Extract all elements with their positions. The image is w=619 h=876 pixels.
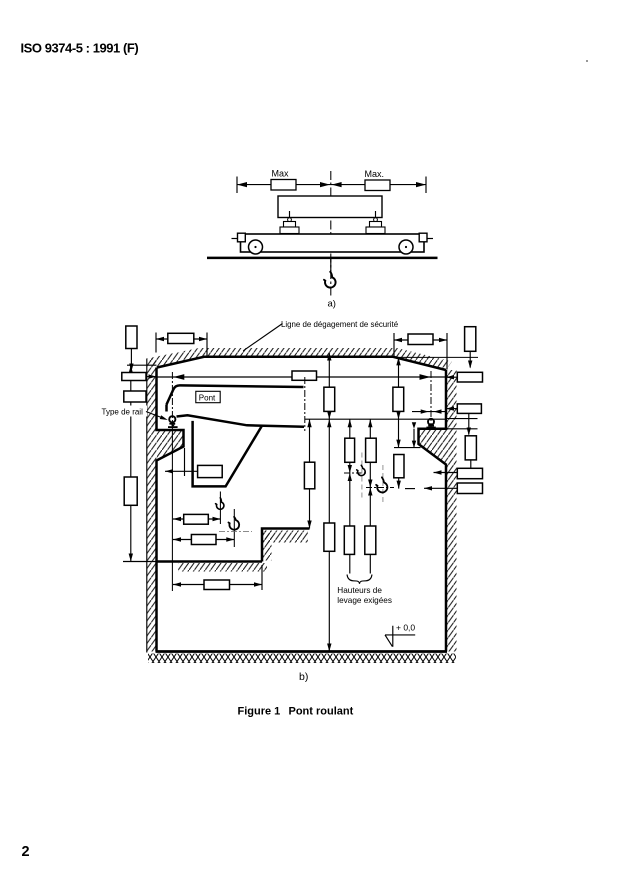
row1 dimension	[173, 518, 221, 520]
rail leader arrow	[146, 412, 160, 418]
runway level extension right of wall	[446, 418, 478, 420]
trolley support right	[370, 222, 382, 228]
rail height dim	[413, 429, 415, 448]
svg-text:Hauteurs de: Hauteurs de	[337, 586, 382, 595]
right corbel hatch	[419, 429, 447, 465]
left crane wheel	[169, 416, 175, 422]
small rail dimension arrows	[412, 411, 446, 413]
platform outline	[262, 529, 310, 562]
right wall inner face with corbel	[419, 370, 447, 652]
reference tick line	[127, 364, 157, 366]
ceiling underside line	[157, 357, 446, 370]
svg-text:b): b)	[299, 671, 308, 683]
dimension line Max left/right	[237, 184, 426, 186]
intermediate floor hatch	[178, 563, 267, 572]
hook B level line	[366, 487, 394, 489]
dimension box Max left	[271, 180, 296, 191]
hook B	[376, 477, 387, 492]
row2 dimension	[173, 539, 234, 541]
stray dot top right	[586, 60, 588, 62]
crab/trolley body	[278, 196, 382, 218]
right column vertical link	[468, 413, 470, 434]
right wall hatch band	[446, 370, 457, 652]
vertical dim chain x398	[398, 357, 400, 387]
row3 right extension	[261, 565, 263, 590]
hall centerline	[304, 377, 306, 431]
row3 dimension	[173, 584, 262, 586]
right box R4	[457, 468, 482, 478]
runway rail line	[207, 257, 438, 260]
hook B centerline	[382, 465, 384, 505]
wheel right	[399, 240, 413, 254]
runway level line	[305, 418, 446, 420]
Pont label box	[196, 391, 220, 402]
arrow left outward	[237, 182, 247, 187]
hook a	[324, 272, 336, 288]
buffer stop left	[238, 233, 246, 242]
box A arrow to wall	[146, 376, 157, 378]
right box R2	[457, 404, 481, 414]
right rail foot	[426, 427, 435, 429]
dimension box in hoist	[198, 465, 223, 477]
hook A level line	[344, 472, 367, 474]
right box R1	[457, 372, 482, 382]
trolley support left	[284, 222, 296, 228]
intermediate floor dim extension	[123, 561, 157, 563]
right column box RC1	[465, 327, 476, 352]
hook A centerline	[361, 453, 363, 500]
arrow right outward	[416, 182, 426, 187]
platform hatch top	[263, 531, 308, 543]
crane girder top edge	[167, 385, 304, 404]
svg-text:+ 0,0: + 0,0	[396, 622, 415, 632]
main span dimension line	[157, 376, 447, 378]
left rail foot	[168, 426, 178, 428]
svg-text:Pont roulant: Pont roulant	[289, 706, 354, 718]
trolley hanger pin left	[289, 211, 291, 222]
hook shank	[330, 258, 332, 272]
top-right dimension line	[394, 339, 447, 341]
top-right dimension box	[408, 334, 433, 345]
main span dimension box	[292, 371, 317, 380]
left outside box B	[124, 391, 146, 402]
extension line left	[236, 177, 238, 194]
svg-text:Ligne de dégagement de sécurit: Ligne de dégagement de sécurité	[281, 320, 399, 329]
hook2 level line	[219, 531, 252, 533]
centerline crane axis	[330, 171, 332, 296]
vertical dim girder-to-platform	[309, 419, 311, 528]
vertical dim chain x370	[369, 419, 371, 573]
vertical dim chain x329	[328, 353, 330, 388]
left outside box L1	[126, 326, 137, 349]
left wall hatch band	[147, 359, 157, 652]
arrows at centerline	[320, 182, 330, 187]
box on dim x309	[304, 462, 314, 489]
right box R5	[457, 483, 482, 494]
extension line right	[425, 177, 427, 194]
top-right dimension extension lines	[394, 333, 447, 370]
left rail centerline	[171, 372, 173, 431]
hoist trapezoid under girder	[193, 421, 262, 487]
left corbel hatch	[157, 430, 184, 461]
corbel level extension right of wall	[446, 428, 478, 430]
girder left edge	[165, 405, 168, 412]
svg-text:Figure 1: Figure 1	[238, 706, 281, 718]
trolley hanger pin right	[375, 211, 377, 222]
left wall inner face with corbel	[157, 368, 184, 652]
svg-text:Pont: Pont	[199, 393, 216, 402]
svg-text:Max.: Max.	[365, 169, 385, 179]
label Type de rail	[112, 406, 147, 417]
datum level symbol	[385, 626, 415, 647]
dimension box Max right	[365, 180, 390, 191]
top-left dimension line	[156, 338, 207, 340]
girder bottom edge	[177, 415, 305, 427]
svg-text:Max: Max	[272, 169, 290, 179]
left rail head	[169, 423, 175, 425]
corbel face extension line	[184, 448, 186, 476]
bridge girder side view	[241, 234, 425, 252]
right box R3	[465, 436, 476, 460]
ceiling hatch band	[147, 348, 452, 370]
vertical dim chain x350	[349, 419, 351, 573]
left tall dimension box L3	[124, 477, 137, 505]
ground hatch band under floor	[148, 654, 456, 664]
svg-text:2: 2	[22, 844, 30, 860]
svg-text:a): a)	[328, 299, 336, 310]
hook2	[228, 517, 239, 530]
hook2 suspension line	[233, 509, 235, 547]
L1 pointer line	[130, 349, 132, 371]
left wall outer line	[146, 359, 148, 653]
hook1	[216, 498, 224, 509]
svg-text:Type de rail: Type de rail	[102, 408, 144, 417]
buffer stop right	[419, 233, 427, 242]
svg-text:levage exigées: levage exigées	[337, 596, 392, 605]
hook1 suspension line	[219, 492, 221, 525]
left tall dimension line	[130, 365, 132, 561]
wheel left	[249, 240, 263, 254]
top-left dimension box	[168, 333, 194, 343]
platform hatch left face	[263, 531, 272, 561]
hook A	[357, 465, 366, 475]
left rail web	[171, 425, 175, 427]
hall floor line	[156, 650, 448, 653]
left outside box A	[122, 373, 146, 381]
dim line to hoist box	[165, 470, 198, 472]
leader to ceiling	[243, 324, 282, 351]
right rail centerline	[430, 371, 432, 429]
left rail dimension extension down	[171, 431, 173, 592]
right crane wheel	[428, 419, 434, 425]
brace under lifting-height lines	[347, 575, 372, 584]
top-left dimension extension lines	[156, 333, 207, 357]
right rail head	[428, 425, 434, 427]
intermediate floor line	[157, 560, 263, 563]
svg-text:ISO 9374-5 : 1991 (F): ISO 9374-5 : 1991 (F)	[21, 41, 139, 56]
